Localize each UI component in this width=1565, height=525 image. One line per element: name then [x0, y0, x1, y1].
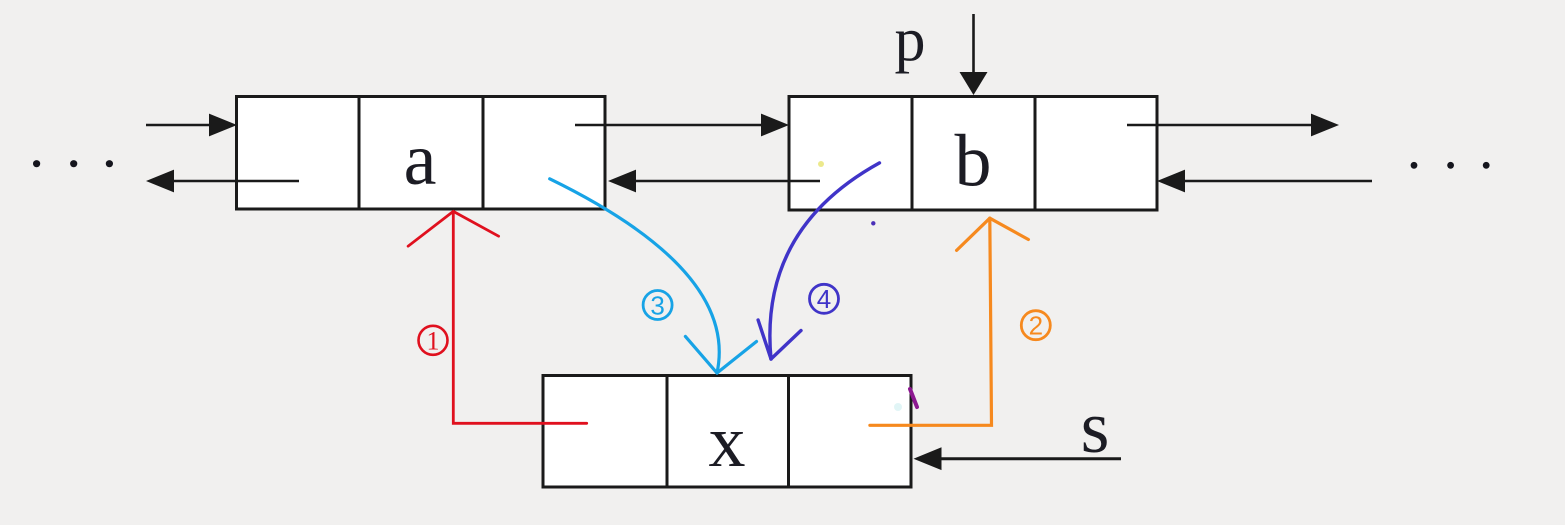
wire next-arrow from node a to node b — [575, 114, 789, 137]
stray yellow speck in node b — [818, 161, 824, 167]
step 2 orange arrow from node x next-field up to node b — [870, 218, 1029, 425]
node b box — [789, 97, 1157, 211]
wire prev-arrow from node b to node a — [608, 170, 820, 193]
pointer p down-arrow onto node b — [960, 14, 988, 95]
step 1 label circled 1 — [419, 326, 448, 356]
wire prev-arrow into node b from right — [1157, 170, 1372, 193]
step 4 violet curved arrow from node b prev-field down to node x — [758, 163, 879, 359]
svg-text:a: a — [404, 119, 437, 201]
wire next-arrow out of node b to right — [1127, 114, 1339, 137]
svg-text:p: p — [895, 6, 926, 74]
step 3 cyan curved arrow from node a next-field down to node x — [550, 179, 757, 373]
step 3 label circled 3 — [643, 290, 672, 320]
pointer s arrow into node x — [914, 447, 1122, 470]
wire prev-arrow out of node a to left — [146, 170, 299, 193]
svg-text:4: 4 — [817, 284, 831, 314]
step 4 label circled 4 — [810, 284, 839, 314]
step 1 red arrow from node x prev-field up to node a — [408, 211, 587, 423]
svg-text:b: b — [955, 121, 992, 203]
ellipsis left — [33, 160, 113, 167]
step 2 label circled 2 — [1021, 310, 1050, 340]
stray pale cyan smudge near node x — [894, 403, 902, 411]
node a box — [237, 97, 606, 210]
ellipsis right — [1411, 162, 1490, 169]
svg-text:x: x — [709, 401, 746, 483]
stray purple pen mark near node x top right — [910, 389, 917, 407]
svg-text:2: 2 — [1029, 310, 1043, 340]
node x box — [543, 376, 911, 488]
svg-text:1: 1 — [427, 327, 440, 356]
stray violet dot right of node b prev curve — [871, 221, 875, 225]
svg-text:s: s — [1081, 387, 1110, 469]
svg-text:3: 3 — [650, 290, 664, 320]
wire next-arrow into node a from left — [146, 114, 237, 137]
